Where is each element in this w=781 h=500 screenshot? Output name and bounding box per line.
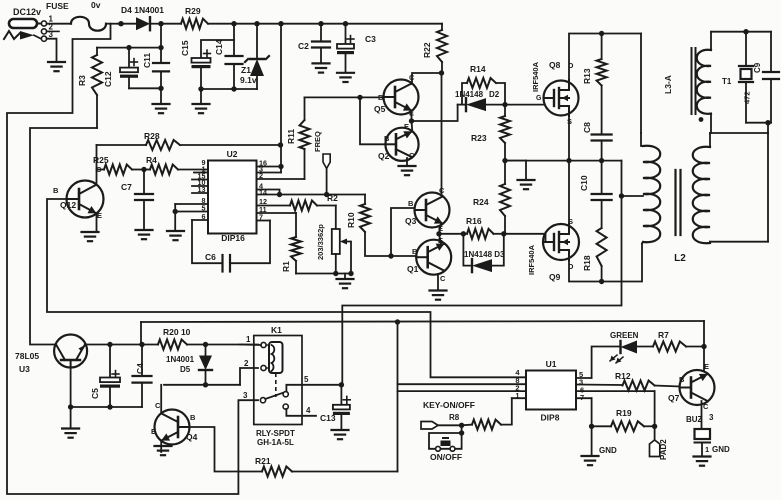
ground under C7: [136, 230, 153, 239]
resistor R14: [458, 64, 505, 105]
ground under Q4: [155, 446, 172, 455]
capacitor C13 electrolytic: [320, 382, 350, 429]
wire U3 output line: [87, 342, 159, 347]
svg-text:D4 1N4001: D4 1N4001: [121, 5, 164, 15]
IC U2 DIP16: [208, 149, 257, 243]
svg-text:B: B: [190, 413, 196, 422]
pad PAD2: [650, 439, 669, 460]
capacitor C7: [121, 170, 153, 230]
svg-text:R25: R25: [93, 155, 109, 165]
svg-text:R16: R16: [466, 216, 482, 226]
svg-text:R4: R4: [146, 155, 157, 165]
wire Q12 collector to R25/R28 node: [96, 170, 98, 186]
relay armature dashed link: [275, 373, 277, 397]
connector plug sleeve contact: [4, 31, 41, 40]
svg-text:4: 4: [306, 406, 311, 415]
wire U1 pin6 to PAD2: [576, 391, 657, 442]
ground under Q2: [399, 166, 416, 175]
capacitor C10: [579, 161, 612, 228]
svg-text:R2: R2: [327, 193, 338, 203]
transformer L2 secondary winding: [693, 133, 710, 243]
wire +12V rail: [208, 21, 442, 26]
svg-text:B: B: [384, 134, 390, 143]
resistor R21: [255, 456, 398, 477]
svg-text:C15: C15: [180, 40, 190, 56]
svg-text:D2: D2: [489, 90, 500, 99]
transformer L2 primary winding: [641, 133, 660, 244]
svg-text:R19: R19: [616, 408, 632, 418]
wire Q5 base from R11 top: [305, 95, 384, 100]
svg-text:E: E: [151, 427, 156, 436]
relay contact 4 terminal: [283, 404, 316, 416]
resistor R16: [463, 216, 506, 239]
resistor R12: [576, 371, 680, 391]
wire Q3/Q1 emitter junction to R16/D3: [436, 224, 466, 244]
svg-text:FREQ: FREQ: [313, 131, 322, 152]
svg-text:C3: C3: [365, 34, 376, 44]
svg-text:Q9: Q9: [549, 272, 561, 282]
wire Q7 collector to buzzer: [702, 401, 715, 429]
wire 0v return branch (fuse node down-left to big left rail): [7, 24, 258, 494]
svg-text:1N4148: 1N4148: [455, 90, 484, 99]
wire U1 pin7 to ground: [576, 398, 617, 455]
ground for DC input: [48, 62, 65, 71]
svg-text:C10: C10: [579, 175, 589, 191]
svg-text:IRF540A: IRF540A: [531, 61, 540, 92]
wire net B Q12 base to U1 pin4: [47, 199, 526, 377]
switch ON/OFF momentary: [429, 425, 464, 462]
svg-text:R22: R22: [422, 42, 432, 58]
svg-text:Z1: Z1: [241, 65, 251, 75]
svg-text:E: E: [704, 362, 709, 371]
transistor Q4: [151, 401, 198, 445]
ground under Q1: [430, 291, 447, 300]
wire net C down to R7/Q7 emitter: [701, 321, 706, 371]
svg-text:R8: R8: [449, 413, 460, 422]
wire Q5/Q2 emitter junction: [409, 105, 458, 132]
svg-text:Q12: Q12: [60, 200, 76, 210]
U1 right pin labels 5 3 6 7: [579, 370, 584, 402]
svg-text:B: B: [412, 247, 418, 256]
svg-text:0v: 0v: [91, 0, 101, 10]
svg-text:ON/OFF: ON/OFF: [430, 452, 462, 462]
svg-text:DIP8: DIP8: [541, 413, 560, 423]
ground under C2: [313, 63, 330, 72]
wire Q4 emitter to ground: [160, 441, 162, 452]
svg-text:R20 10: R20 10: [163, 327, 191, 337]
svg-text:PAD2: PAD2: [659, 439, 668, 460]
ground under C15: [193, 104, 210, 113]
capacitor C14: [214, 39, 243, 89]
diode D2 1N4148: [455, 90, 508, 111]
wire R10 node to Q3/Q1 bases: [388, 208, 416, 259]
transistor Q1: [407, 236, 451, 283]
svg-text:R10: R10: [346, 212, 356, 228]
trimmer RV1 203/3362p: [316, 206, 351, 274]
svg-text:3: 3: [243, 391, 248, 400]
buzzer BUZ: [686, 415, 730, 456]
fuse F1: [46, 1, 118, 31]
resistor R20 10: [158, 327, 258, 350]
wire rail tap down to R3/C12/C11 node: [160, 24, 162, 48]
svg-text:R12: R12: [615, 371, 631, 381]
svg-text:T1: T1: [722, 77, 732, 86]
wire R3 node down to U3 input: [30, 128, 97, 345]
ground under buzzer: [694, 457, 711, 466]
svg-text:C11: C11: [142, 53, 152, 68]
resistor R4: [141, 155, 208, 175]
ground under C3: [337, 73, 354, 82]
pad key input tag: [421, 422, 464, 430]
wire U3 common to ground rail: [68, 368, 142, 428]
svg-text:9.1v: 9.1v: [240, 75, 257, 85]
wire R3 top node: [97, 45, 164, 50]
transformer L2 core: [674, 170, 686, 264]
svg-text:FUSE: FUSE: [46, 1, 69, 11]
diode D3 1N4148: [463, 234, 505, 272]
ground at source node: [518, 180, 535, 189]
svg-text:R3: R3: [77, 75, 87, 86]
resistor R13: [582, 34, 607, 135]
svg-text:DIP16: DIP16: [221, 233, 245, 243]
capacitor C2: [298, 24, 330, 63]
wire Q12 emitter to ground: [96, 214, 98, 232]
wire Q8 drain to top-right rail: [569, 31, 641, 81]
ground under C13: [332, 430, 349, 439]
svg-text:1N4148 D3: 1N4148 D3: [464, 250, 505, 259]
wire pin3 to ground: [47, 39, 57, 61]
ground under U3: [62, 429, 79, 438]
connector pins 1 2 3: [41, 15, 59, 42]
svg-text:R1: R1: [281, 261, 291, 272]
wire source node across to center-tap riser: [505, 161, 622, 196]
zener diode Z1 9.1v: [240, 24, 269, 89]
ground under U2 pins 8,5: [167, 231, 184, 240]
svg-text:3: 3: [49, 30, 54, 39]
svg-text:2: 2: [244, 359, 249, 368]
svg-text:U1: U1: [546, 359, 557, 369]
net label 0v: [91, 0, 101, 10]
capacitor C6 timing: [192, 220, 270, 272]
resistor R22: [422, 24, 447, 73]
inductor L3-A feedback winding with core: [663, 32, 711, 133]
svg-text:C8: C8: [582, 122, 592, 133]
resistor R11: [257, 97, 310, 179]
svg-text:C6: C6: [205, 252, 216, 262]
resistor R29: [158, 6, 208, 29]
svg-text:B: B: [53, 186, 59, 195]
svg-text:C: C: [703, 402, 709, 411]
capacitor C15 electrolytic: [180, 24, 234, 89]
svg-text:RLY-SPDT: RLY-SPDT: [256, 429, 295, 438]
wire C15/C14/Z1 bottom node: [198, 86, 257, 103]
capacitor C11: [129, 48, 169, 103]
svg-text:GND: GND: [712, 445, 730, 454]
relay pin 1 terminal: [240, 335, 269, 348]
svg-text:Q2: Q2: [378, 151, 390, 161]
wire Q4 collector up: [160, 385, 162, 414]
svg-text:E: E: [97, 211, 102, 220]
label KEY-ON/OFF: [423, 400, 475, 410]
svg-text:C5: C5: [90, 388, 100, 399]
wire Q2 collector to ground: [406, 158, 408, 165]
wire U2 pins 4,14 bus to FREQ / R10: [257, 190, 366, 198]
wire D3 node to Q9 gate: [504, 234, 546, 242]
svg-text:78L05: 78L05: [15, 351, 39, 361]
svg-text:C7: C7: [121, 182, 132, 192]
svg-text:KEY-ON/OFF: KEY-ON/OFF: [423, 400, 475, 410]
resistor R18: [582, 228, 607, 284]
wire Q8 source down to source node: [566, 116, 571, 164]
svg-text:R11: R11: [286, 129, 296, 144]
resistor R8: [449, 413, 501, 430]
svg-text:R23: R23: [471, 133, 487, 143]
transistor Q7: [668, 362, 715, 411]
wire Q1 collector to ground: [437, 274, 439, 289]
svg-text:Q7: Q7: [668, 393, 680, 403]
resistor R1: [257, 213, 302, 274]
wire Q5 collector to R22 bottom: [412, 70, 444, 84]
svg-text:IRF540A: IRF540A: [527, 244, 536, 275]
node tag FREQ: [313, 131, 330, 195]
svg-text:Q4: Q4: [186, 432, 198, 442]
capacitor C4: [133, 345, 152, 408]
relay pin 3 common terminal and contact arm: [243, 391, 284, 403]
resistor R10: [346, 195, 391, 257]
diode D5 1N4001: [166, 345, 212, 388]
svg-text:Q3: Q3: [405, 216, 417, 226]
wire R1/trimmer ground node: [296, 271, 354, 278]
ground under Q12: [82, 232, 99, 241]
wire top-right rail to L3-A: [641, 29, 771, 133]
diode D4 1N4001: [118, 5, 164, 30]
svg-text:B: B: [408, 199, 414, 208]
wire net A relay contact to L2 center tap: [342, 196, 621, 385]
resistor R24: [473, 161, 510, 235]
IC U1 DIP8: [526, 359, 576, 423]
svg-text:GND: GND: [599, 446, 617, 455]
svg-text:E: E: [404, 122, 409, 131]
svg-text:5: 5: [304, 375, 309, 384]
svg-text:C: C: [155, 401, 161, 410]
resistor R28: [97, 131, 281, 170]
ground under trimmer: [337, 279, 354, 288]
wire net C +5V distribution: [141, 319, 704, 471]
svg-text:K1: K1: [271, 325, 282, 335]
svg-text:Q8: Q8: [549, 60, 561, 70]
resistor R7: [653, 330, 704, 352]
svg-text:C: C: [440, 274, 446, 283]
transistor Q12: [53, 165, 104, 220]
wire D5/Q4 collector node to relay pin2: [164, 368, 258, 385]
capacitor C5 electrolytic: [90, 345, 120, 408]
svg-text:G: G: [536, 95, 542, 102]
resistor R19: [592, 408, 655, 431]
relay coil: [269, 342, 283, 373]
svg-text:GREEN: GREEN: [610, 331, 639, 340]
resistor R25: [93, 155, 144, 175]
svg-text:R14: R14: [470, 64, 486, 74]
relay K1 RLY-SPDT GH-1A-5L: [254, 325, 302, 447]
svg-text:C12: C12: [103, 71, 113, 87]
resistor R2: [257, 193, 339, 211]
svg-text:C4: C4: [135, 363, 145, 374]
wire T1/C9 bottom to L2 secondary: [746, 120, 771, 133]
wire Q9 source up to source node: [568, 161, 570, 225]
regulator U3 78L05: [15, 335, 87, 375]
wire Q4 base to R21: [190, 427, 263, 472]
capacitor C12 electrolytic: [103, 48, 138, 89]
U2 left pins 9 1 15 10 13 8 5 6: [192, 158, 208, 221]
svg-text:472: 472: [743, 91, 752, 104]
svg-text:R29: R29: [185, 6, 201, 16]
svg-text:3: 3: [709, 413, 714, 422]
wire U1 pin5 to LED: [576, 347, 620, 379]
wire Q9 drain to L2 primary bottom: [569, 244, 642, 282]
svg-text:D5: D5: [180, 365, 191, 374]
relay pin 2 terminal: [244, 359, 269, 371]
connector J1 DC12v barrel jack: [9, 7, 43, 28]
wire source/center node with ground branch: [502, 158, 526, 179]
svg-text:Q5: Q5: [374, 104, 386, 114]
capacitor C9: [753, 32, 779, 123]
wire L2 secondary loop to T1/C9: [710, 133, 768, 242]
svg-text:203/3362p: 203/3362p: [316, 224, 325, 260]
transistor Q5: [374, 73, 419, 118]
svg-text:GH-1A-5L: GH-1A-5L: [257, 438, 294, 447]
transistor Q3: [405, 186, 450, 233]
wire D2 node to Q8 gate: [505, 95, 544, 105]
svg-text:C: C: [409, 151, 415, 160]
svg-text:DC12v: DC12v: [13, 7, 41, 17]
svg-text:R18: R18: [582, 255, 592, 271]
MOSFET Q9 IRF540A: [527, 217, 579, 282]
resistor R3: [77, 48, 102, 128]
svg-text:1: 1: [705, 445, 709, 454]
svg-text:R28: R28: [144, 131, 160, 141]
ground under C11: [153, 104, 170, 113]
ground under U1 pin7: [582, 456, 599, 465]
transistor Q2: [378, 122, 419, 161]
crystal T1 472: [722, 32, 753, 123]
wire U2 Vcc pins 16,3 from +12V rail: [257, 24, 284, 173]
svg-text:L3-A: L3-A: [663, 75, 673, 94]
svg-text:R21: R21: [255, 456, 271, 466]
svg-text:U3: U3: [19, 364, 30, 374]
U1 left pin labels 4 8 2 1: [515, 368, 520, 400]
svg-text:1N4001: 1N4001: [166, 355, 195, 364]
svg-text:L2: L2: [674, 253, 686, 264]
wire U1 pin1 to key switch: [501, 398, 526, 424]
svg-text:R13: R13: [582, 68, 592, 84]
svg-text:1: 1: [246, 335, 251, 344]
resistor R23: [471, 105, 510, 161]
svg-text:C13: C13: [320, 413, 336, 423]
MOSFET Q8 IRF540A: [531, 60, 579, 126]
svg-text:C9: C9: [753, 62, 762, 73]
LED GREEN: [610, 331, 653, 363]
U2 right pins 16 3 2 4 14 12 11 7: [259, 159, 267, 222]
wire U2 pins 8,5 to ground: [173, 204, 209, 230]
svg-text:B: B: [679, 375, 685, 384]
svg-text:BUZ: BUZ: [686, 415, 703, 424]
svg-text:R24: R24: [473, 197, 489, 207]
svg-text:C14: C14: [214, 39, 224, 55]
svg-text:R7: R7: [658, 330, 669, 340]
capacitor C8: [582, 122, 612, 163]
wire Q2 base from Q5 base line: [360, 97, 385, 144]
wire L2 center tap: [619, 193, 643, 198]
svg-text:Q1: Q1: [407, 264, 419, 274]
relay contact 5 terminal: [283, 375, 341, 397]
svg-text:C2: C2: [298, 41, 309, 51]
capacitor C3 electrolytic: [337, 24, 376, 72]
wire Q3 collector up to R22/Q5 node: [441, 73, 443, 196]
svg-text:U2: U2: [227, 149, 238, 159]
